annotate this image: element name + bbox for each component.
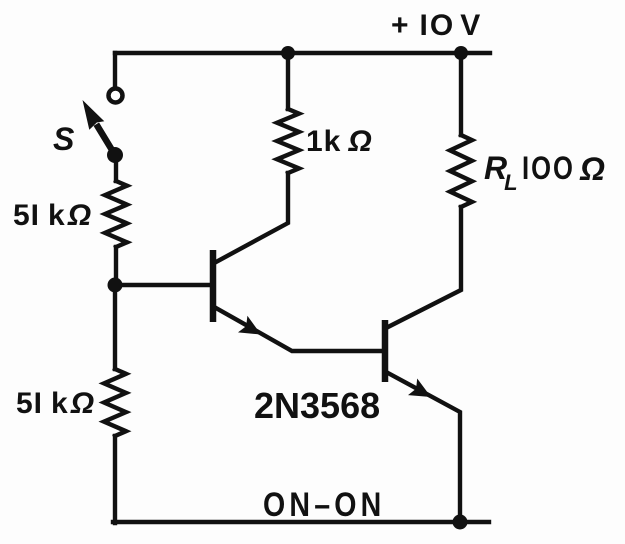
svg-text:5IkΩ: 5IkΩ	[16, 387, 95, 420]
svg-text:RL: RL	[484, 150, 518, 195]
svg-text:2N3568: 2N3568	[254, 385, 380, 426]
svg-text:5IkΩ: 5IkΩ	[13, 199, 92, 232]
svg-text:1kΩ: 1kΩ	[306, 125, 373, 158]
svg-text:+IOV: +IOV	[391, 9, 481, 42]
svg-text:ON–ON: ON–ON	[263, 486, 385, 524]
svg-text:S: S	[53, 121, 75, 157]
svg-text:IOO: IOO	[522, 151, 575, 186]
svg-text:Ω: Ω	[579, 151, 605, 187]
